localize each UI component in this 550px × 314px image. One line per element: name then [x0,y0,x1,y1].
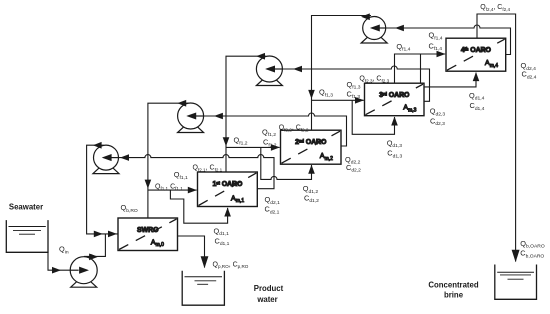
arrow stage4 feed into box4 [437,51,446,58]
arrow P0 discharge [91,254,98,259]
arrow recycle into SWRO feed 2 [108,231,117,238]
arrow d1,2 up into box2 [308,165,315,174]
arrow bus into pump PR [120,154,129,161]
arrow seawater into P0 [52,267,61,274]
wire stage1 d2,1 outlet to recycle bus into pump PR [118,155,274,189]
wire stage2 feed line Qf1,2 [226,146,280,148]
arrow recycle into SWRO feed 1 [94,231,103,238]
arrow d2,4 into pump P3 [395,25,404,32]
svg-text:Concentrated: Concentrated [428,281,478,290]
arrow permeate down into product tank [201,256,209,268]
wire stage1 f2,1 riser / pump P2 discharge descent [226,56,266,172]
arrow d2,2 into pump P1 [214,113,223,120]
membrane unit 4th OARO [446,38,506,71]
arrow brine down into brine tank [512,250,520,263]
wire stage2 sweep split to d1,2 inlet [261,147,312,179]
arrow stage1 feed into box1 [188,187,197,194]
svg-text:brine: brine [444,291,464,300]
membrane unit SWRO [118,218,178,251]
wire stage3 d2,3 outlet loop to pump P2 inlet [282,66,429,101]
pump P1 [178,101,204,133]
arrow pump P1 discharge down into stage1 feed [145,180,152,189]
pump PR recycle pump [93,143,119,174]
wire stage4 sweep split to d1,4 inlet [421,54,477,87]
wire pump P3 discharge descent to stage3 feed and box2 top f2,2 [312,16,372,131]
wire SWRO permeate to product tank Qp,RO [178,236,205,268]
arrow stage2 feed into box2 [271,144,280,151]
pump P2 [256,54,282,86]
wire stage3 feed line Qf1,3 [312,99,364,101]
svg-text:Product: Product [254,284,284,293]
arrow pump P3 discharge down into stage3 feed [308,90,315,99]
pump P0 seawater feed pump [70,254,97,287]
membrane unit 3rd OARO [365,83,425,116]
arrow d2,3 into pump P2 [293,66,302,73]
wire stage1 sweep split staircase to d1,1 inlet [170,190,227,223]
svg-text:SWRO: SWRO [137,227,159,234]
wire stage4 d2,4 outlet loop to pump P3 inlet [386,25,511,55]
wire stage4 f2,4 outlet over the top to concentrated brine Qb,OARO [477,14,516,262]
svg-text:Seawater: Seawater [9,203,43,212]
wire SWRO brine riser Qb,RO merged with pump P1 discharge [148,103,189,218]
wire seawater tank to feed pump P0 [48,252,70,270]
pump P3 [361,14,387,43]
wire stage3 sweep split to d1,3 inlet [352,100,394,134]
tank seawater [6,220,48,252]
arrow pump P2 discharge down into stage2 feed [223,137,230,146]
membrane unit 2nd OARO [281,130,342,164]
wire stage2 d2,2 outlet loop to pump P1 inlet [204,113,347,146]
svg-text:water: water [256,295,277,304]
arrow stage3 feed into box3 [355,97,364,104]
arrow d1,4 up into box4 [473,72,480,81]
arrow d1,1 up into box1 [224,208,231,217]
tank concentrated brine [495,265,537,300]
wire stage1 feed line Qf1,1 [148,189,197,191]
wire stage3 f2,3 riser to stage4 feed line Qf1,4 [395,54,446,83]
wire P0 discharge riser to SWRO feed line [84,234,105,257]
wire recycle pump PR discharge down to SWRO feed line [87,145,118,234]
membrane unit 1st OARO [198,172,258,207]
arrow d1,3 up into box3 [391,117,398,126]
tank product water [182,271,224,306]
